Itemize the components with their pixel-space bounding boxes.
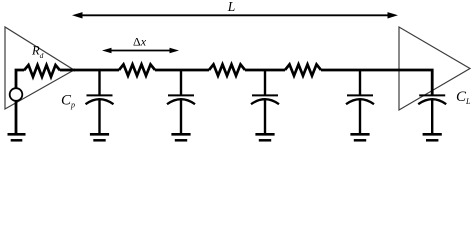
svg-text:Δx: Δx [133, 35, 147, 49]
svg-text:L: L [227, 0, 236, 14]
